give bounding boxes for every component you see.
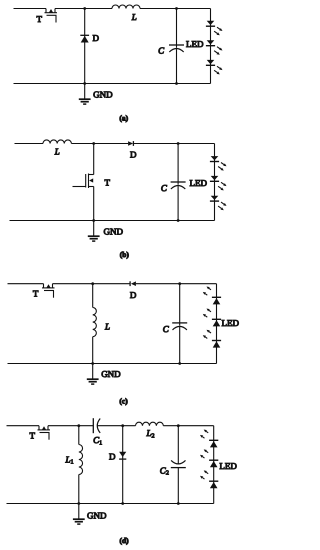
circuit (d) top rail left segment / wire	[7, 425, 40, 427]
label T (d)	[30, 431, 36, 441]
svg-text:L: L	[131, 12, 137, 22]
svg-text:L1: L1	[65, 454, 74, 465]
wire inductor top lead (c)	[92, 284, 94, 308]
node: L1-top junction (d)	[77, 424, 80, 427]
inductor L (c)	[93, 308, 97, 337]
circuit (d) bottom rail / wire	[7, 503, 214, 505]
LED D2 (b)	[210, 176, 227, 191]
capacitor C2 (d)	[171, 460, 186, 467]
node: diode-bottom junction (d)	[121, 502, 124, 505]
node: diode-bottom junction (a)	[83, 82, 86, 85]
ground GND (a)	[79, 84, 91, 105]
LED D3 (d)	[200, 470, 218, 488]
label C2 (d)	[160, 466, 169, 477]
node: transistor drain junction (b)	[92, 142, 95, 145]
svg-text:T: T	[30, 431, 36, 441]
wire L1 bottom lead (d)	[78, 475, 80, 504]
svg-text:D: D	[130, 290, 137, 300]
wire C2 top lead (d)	[177, 426, 179, 464]
capacitor C (c)	[172, 323, 187, 330]
circuit (a) top rail left segment / wire	[14, 8, 47, 10]
ground GND (c)	[87, 364, 99, 385]
node: source-bottom junction (b)	[92, 219, 95, 222]
diode D (c)	[130, 281, 136, 286]
node: L1-bottom junction (d)	[77, 502, 80, 505]
ground GND (b)	[88, 221, 100, 242]
svg-text:C: C	[161, 183, 168, 193]
transistor T (MOSFET) Q-c	[42, 284, 55, 298]
svg-text:(a): (a)	[119, 114, 128, 123]
label L2 (d)	[146, 428, 155, 439]
wire capacitor bottom lead (a)	[176, 49, 178, 83]
label D (a)	[93, 33, 100, 43]
inductor L (a)	[112, 5, 140, 8]
circuit (a) right rail / wire	[210, 9, 212, 84]
label D (c)	[130, 290, 137, 300]
capacitor C (a)	[169, 45, 184, 52]
node: capacitor-top junction (a)	[175, 7, 178, 10]
LED D2 (a)	[206, 40, 223, 55]
wire capacitor bottom lead (c)	[179, 327, 181, 364]
circuit (a) bottom rail / wire	[14, 83, 211, 85]
svg-text:LED: LED	[190, 178, 208, 188]
diode D (a)	[80, 35, 89, 42]
label L (a)	[131, 12, 137, 22]
label C1 (d)	[93, 435, 102, 446]
label GND (c)	[101, 369, 121, 379]
inductor L (b)	[43, 140, 71, 144]
circuit (b) bottom rail / wire	[10, 220, 215, 222]
circuit (d) right rail / wire	[213, 426, 215, 504]
diode D (b)	[128, 141, 133, 146]
node: inductor-bottom junction (c)	[91, 362, 94, 365]
circuit (d) top rail segment 3 / wire	[97, 425, 135, 427]
svg-text:GND: GND	[101, 369, 121, 379]
label T (a)	[37, 14, 43, 24]
node: C2-bottom junction (d)	[177, 502, 180, 505]
label LED (b)	[190, 178, 208, 188]
circuit (d) top rail segment 4 / wire	[163, 425, 213, 427]
wire capacitor top lead (b)	[177, 144, 179, 185]
circuit (a) top rail middle segment / wire	[55, 8, 112, 10]
wire capacitor top lead (c)	[179, 284, 181, 326]
circuit (d) top rail segment 2 / wire	[48, 425, 93, 427]
label C (c)	[163, 324, 170, 334]
LED D1 (a)	[206, 21, 223, 36]
node: capacitor-bottom junction (b)	[177, 219, 180, 222]
svg-text:D: D	[93, 33, 100, 43]
svg-text:(d): (d)	[120, 536, 130, 545]
LED D3 (a)	[206, 60, 223, 75]
diode D (d)	[119, 452, 126, 459]
label LED (a)	[186, 39, 204, 49]
label GND (a)	[93, 90, 113, 100]
circuit (b) top rail left segment / wire	[15, 143, 44, 145]
circuit (c) top rail middle segment / wire	[53, 283, 131, 285]
capacitor C1 (d)	[93, 418, 100, 433]
wire capacitor top lead (a)	[176, 9, 178, 48]
node: capacitor-top junction (c)	[178, 282, 181, 285]
svg-text:LED: LED	[186, 39, 204, 49]
transistor T (MOSFET) Q-d	[38, 426, 51, 440]
capacitor C (b)	[171, 182, 186, 189]
label T (c)	[33, 288, 39, 298]
label C (a)	[158, 46, 165, 56]
caption (c)	[119, 396, 128, 405]
svg-text:(b): (b)	[120, 250, 130, 259]
circuit (a) top rail right segment / wire	[140, 8, 211, 10]
LED D1 (c)	[203, 287, 221, 305]
wire L1 top lead (d)	[78, 426, 80, 445]
node: capacitor-bottom junction (c)	[178, 362, 181, 365]
svg-text:C2: C2	[160, 466, 169, 477]
transistor T (MOSFET) Q-a	[45, 9, 58, 23]
LED D1 (d)	[200, 430, 218, 448]
svg-text:(c): (c)	[119, 396, 128, 405]
circuit (c) bottom rail / wire	[8, 363, 217, 365]
wire diode branch (a)	[84, 9, 86, 84]
caption (a)	[119, 114, 128, 123]
label D (d)	[109, 451, 116, 461]
caption (d)	[120, 536, 130, 545]
node: C2-top junction (d)	[177, 424, 180, 427]
LED D2 (d)	[200, 449, 218, 467]
label D (b)	[130, 149, 137, 159]
circuit (b) top rail right segment / wire	[134, 143, 215, 145]
circuit (b) top rail middle segment / wire	[71, 143, 128, 145]
svg-text:GND: GND	[104, 227, 124, 237]
LED D2 (c)	[203, 309, 221, 327]
inductor L1 (d)	[79, 445, 83, 475]
label GND (d)	[87, 510, 107, 520]
svg-text:GND: GND	[93, 90, 113, 100]
node: inductor-top junction (c)	[91, 282, 94, 285]
wire C2 bottom lead (d)	[177, 468, 179, 504]
inductor L2 (d)	[136, 422, 164, 425]
svg-text:C: C	[163, 324, 170, 334]
svg-text:LED: LED	[219, 461, 237, 471]
svg-text:T: T	[33, 288, 39, 298]
transistor T (MOSFET) Q-b	[73, 174, 94, 189]
circuit (b) right rail / wire	[214, 144, 216, 221]
wire source (b)	[93, 187, 95, 221]
svg-text:L2: L2	[146, 428, 155, 439]
svg-text:C1: C1	[93, 435, 102, 446]
node: diode-top junction (d)	[121, 424, 124, 427]
label L1 (d)	[65, 454, 74, 465]
wire capacitor bottom lead (b)	[177, 186, 179, 220]
LED D3 (c)	[203, 330, 221, 348]
ground GND (d)	[73, 504, 85, 525]
circuit (c) top rail right segment / wire	[136, 283, 217, 285]
svg-text:D: D	[130, 149, 137, 159]
svg-text:D: D	[109, 451, 116, 461]
LED D3 (b)	[210, 196, 227, 211]
label L (c)	[104, 322, 110, 332]
LED D1 (b)	[210, 156, 227, 171]
wire diode branch (d)	[122, 426, 124, 504]
caption (b)	[120, 250, 130, 259]
svg-text:GND: GND	[87, 510, 107, 520]
label L (b)	[54, 147, 60, 157]
wire drain (b)	[93, 144, 95, 175]
svg-text:C: C	[158, 46, 165, 56]
wire inductor bottom lead (c)	[92, 337, 94, 364]
label T (b)	[105, 178, 111, 188]
circuit (c) right rail / wire	[216, 284, 218, 364]
svg-text:L: L	[54, 147, 60, 157]
node: capacitor-top junction (b)	[177, 142, 180, 145]
circuit (c) top rail left segment / wire	[8, 283, 44, 285]
label LED (d)	[219, 461, 237, 471]
svg-text:L: L	[104, 322, 110, 332]
node: diode-top junction (a)	[83, 7, 86, 10]
svg-text:T: T	[105, 178, 111, 188]
label GND (b)	[104, 227, 124, 237]
label LED (c)	[222, 318, 240, 328]
svg-text:LED: LED	[222, 318, 240, 328]
label C (b)	[161, 183, 168, 193]
svg-text:T: T	[37, 14, 43, 24]
node: capacitor-bottom junction (a)	[175, 82, 178, 85]
